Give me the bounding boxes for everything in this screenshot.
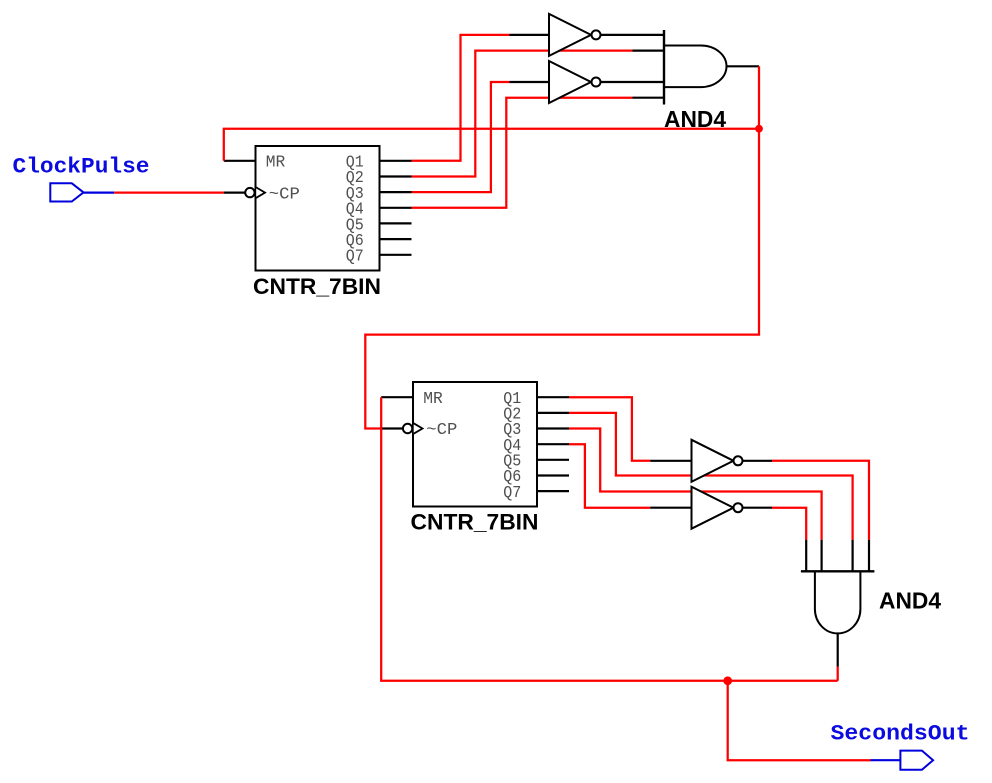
U1 pin MR stub [224, 160, 256, 162]
U1 pin Q5 stub [380, 222, 412, 224]
U2 pin MR stub [381, 396, 413, 398]
inverter U5A [650, 440, 772, 482]
U1 pin Q4 stub [380, 207, 412, 209]
U1 clock chevron [256, 187, 265, 197]
U4 body [664, 46, 727, 88]
U4 pin2 stub [633, 49, 665, 51]
wire junction to SecondsOut port [728, 681, 871, 760]
inverter U3B [510, 61, 665, 103]
svg-text:MR: MR [423, 390, 443, 409]
junction dot U4 output / MR feedback [755, 125, 763, 133]
U6 input bar [801, 570, 875, 572]
U4 input bar [663, 30, 665, 105]
U1 pin Q7 stub [380, 254, 412, 256]
input port ClockPulse [50, 183, 114, 201]
svg-text:~CP: ~CP [426, 421, 457, 440]
wire U4 output feedback to U1.MR [224, 129, 759, 161]
U1 pin ~CP stub [224, 192, 245, 194]
U6 pin4 stub [868, 540, 870, 572]
wire U5B output to AND U6 pin1 [772, 508, 806, 540]
wire U6 output to U2.MR feedback [381, 397, 838, 681]
output port SecondsOut [871, 751, 934, 770]
svg-text:Q7: Q7 [346, 248, 364, 267]
U2 pin ~CP stub [382, 427, 403, 429]
U4 output stub [727, 65, 760, 67]
svg-text:CNTR_7BIN: CNTR_7BIN [253, 274, 381, 299]
U2 clock chevron [414, 423, 423, 433]
U2 pin Q1 stub [537, 396, 569, 398]
U2 pin Q6 stub [537, 474, 569, 476]
svg-text:~CP: ~CP [269, 185, 300, 204]
inverter U3A [510, 14, 665, 56]
svg-text:AND4: AND4 [879, 588, 941, 614]
junction dot U6 output / SecondsOut [723, 676, 732, 685]
U1 pin Q3 stub [380, 191, 412, 193]
U6 output stub [837, 633, 839, 666]
wire U1.Q4 to AND U4 pin4 [412, 98, 633, 208]
U6 pin1 stub [805, 540, 807, 572]
wire U2.Q4 to inverter U5B input [569, 444, 650, 508]
svg-text:ClockPulse: ClockPulse [13, 155, 150, 180]
U4 pin4 stub [633, 97, 665, 99]
svg-text:MR: MR [266, 154, 286, 173]
U2 pin Q7 stub [537, 490, 569, 492]
wire U1.Q1 to inverter U3A input [412, 35, 510, 161]
wire U6 output down [837, 667, 839, 681]
U6 pin2 stub [820, 540, 822, 572]
wire U4 output down right side [365, 66, 759, 428]
svg-text:SecondsOut: SecondsOut [831, 721, 970, 746]
wire U2.Q3 to AND U6 pin2 [569, 429, 822, 540]
AND gate U4 (AND4, top) [633, 30, 760, 105]
wire ClockPulse to U1 ~CP [114, 191, 224, 193]
wire U1.Q2 to AND U4 pin2 [412, 51, 633, 177]
wire U5A output to AND U6 pin4 [772, 461, 869, 540]
counter U2 CNTR_7BIN [381, 382, 569, 507]
wire U2.Q1 to inverter U5A input [569, 397, 650, 461]
U2 pin Q5 stub [537, 459, 569, 461]
U6 body [815, 571, 861, 633]
wire U2.Q2 to AND U6 pin3 [569, 413, 853, 540]
counter U1 CNTR_7BIN [224, 146, 412, 271]
U6 pin3 stub [851, 540, 853, 572]
U1 ~CP bubble [245, 188, 254, 197]
inverter U5B [650, 487, 772, 529]
AND gate U6 (AND4, bottom, rotated) [801, 540, 875, 667]
svg-text:CNTR_7BIN: CNTR_7BIN [411, 510, 539, 535]
U1 pin Q1 stub [380, 160, 412, 162]
svg-text:Q7: Q7 [503, 484, 521, 503]
U2 pin Q4 stub [537, 443, 569, 445]
U2 ~CP bubble [403, 424, 412, 433]
U2 pin Q2 stub [537, 412, 569, 414]
U1 pin Q6 stub [380, 238, 412, 240]
U1 pin Q2 stub [380, 175, 412, 177]
wire U1.Q3 to inverter U3B input [412, 82, 510, 192]
U2 pin Q3 stub [537, 427, 569, 429]
